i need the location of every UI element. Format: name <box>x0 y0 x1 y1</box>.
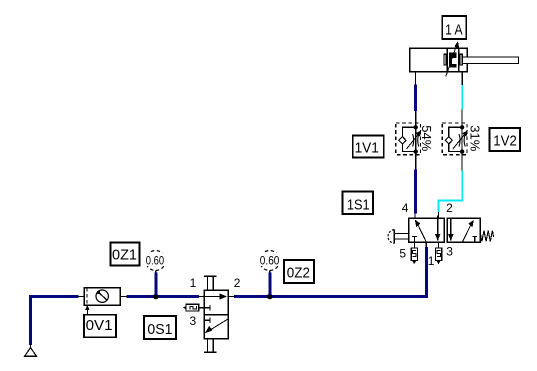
label 1A with pointer <box>442 16 466 77</box>
valve 0S1 3/2-way shut-off (vertical) <box>183 276 241 353</box>
pressure gauge 0Z1 <box>145 251 167 296</box>
compressed air source <box>24 344 37 356</box>
svg-text:3: 3 <box>446 245 453 259</box>
right square: down arrow <box>450 218 452 240</box>
svg-text:31%: 31% <box>467 125 482 151</box>
detent bottom <box>206 339 208 353</box>
port stubs <box>414 242 416 248</box>
svg-text:0V1: 0V1 <box>86 317 113 334</box>
left square: 5 blocked <box>412 235 417 237</box>
wire 1V1 to cylinder (navy) <box>414 85 417 111</box>
svg-text:3: 3 <box>190 314 197 328</box>
valve 1S1 5/2-way <box>388 201 494 268</box>
right square: 3 blocked <box>472 236 477 238</box>
svg-text:0Z2: 0Z2 <box>287 264 310 281</box>
body squares <box>409 218 445 242</box>
silencer port3 <box>436 248 442 261</box>
left square: 2->3 <box>437 216 439 241</box>
node junction 0Z2 <box>267 294 273 300</box>
label 0V1 with pointer <box>84 305 116 338</box>
label 1V1 <box>353 136 384 158</box>
spring return <box>480 231 493 242</box>
silencer port5 <box>411 248 417 261</box>
label 0Z1 <box>111 243 140 266</box>
label 1S1 <box>343 192 374 215</box>
wire 1V2 to cylinder (cyan) <box>461 84 463 109</box>
cylinder 1A <box>410 48 519 85</box>
wire main supply horizontal <box>31 247 427 345</box>
svg-text:1V1: 1V1 <box>355 139 379 156</box>
svg-text:0.60: 0.60 <box>260 254 280 268</box>
svg-text:0Z1: 0Z1 <box>112 246 137 263</box>
silencer port3 0S1 <box>199 307 204 309</box>
throttle check valve 1V1 <box>396 111 422 170</box>
label 1V2 <box>490 128 521 151</box>
push button actuator <box>393 230 395 244</box>
svg-text:2: 2 <box>234 276 241 290</box>
svg-text:0S1: 0S1 <box>147 321 172 338</box>
svg-text:2: 2 <box>446 201 453 215</box>
detent top <box>206 276 208 290</box>
svg-text:1V2: 1V2 <box>493 132 517 149</box>
svg-text:0.60: 0.60 <box>146 254 165 268</box>
air service unit 0V1 <box>78 288 128 305</box>
svg-text:1: 1 <box>428 254 435 268</box>
throttle check valve 1V2 <box>442 110 468 171</box>
svg-text:4: 4 <box>402 201 409 215</box>
wire port2 to 1V2 (cyan) <box>439 171 463 212</box>
svg-text:1: 1 <box>190 276 197 290</box>
svg-text:1 A: 1 A <box>445 22 463 39</box>
svg-text:1S1: 1S1 <box>347 196 370 213</box>
wire port4 to 1V1 (navy) <box>414 169 417 213</box>
node junction 0Z1 <box>153 294 159 300</box>
label 0Z2 <box>284 260 314 283</box>
svg-text:54%: 54% <box>419 125 434 151</box>
label 0S1 <box>144 316 176 339</box>
right square: 1->2 <box>462 224 471 243</box>
pressure gauge 0Z2 <box>259 251 281 296</box>
svg-text:5: 5 <box>399 247 406 261</box>
left square: 1->4 <box>417 223 426 242</box>
